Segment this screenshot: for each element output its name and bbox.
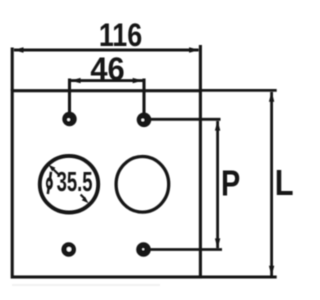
diameter leader upper-left in big circle xyxy=(54,170,59,175)
arrowhead 46 left xyxy=(70,78,80,83)
mounting hole bottom-left xyxy=(61,242,76,257)
plate outline xyxy=(12,91,200,277)
mounting hole top-right xyxy=(137,113,152,128)
wire: left extension line above plate for 116 dim xyxy=(11,48,14,91)
svg-text:35.5: 35.5 xyxy=(57,167,93,198)
wire: top edge extension to L dim line xyxy=(200,89,276,92)
arrowhead L top xyxy=(269,92,274,102)
hole center bottom-right xyxy=(142,248,144,250)
dimension line L xyxy=(270,92,273,276)
hole circle large left xyxy=(40,156,98,213)
arrowhead 116 right xyxy=(189,47,199,53)
arrowhead 46 right xyxy=(133,78,143,83)
wire: stub from dim 46 left end down to top-left hole xyxy=(68,79,71,120)
mounting hole top-left xyxy=(62,112,76,126)
arrowhead P top xyxy=(215,120,220,130)
mounting hole bottom-right xyxy=(136,242,151,257)
arrowhead 116 left xyxy=(13,47,23,53)
wire: extension from top-right hole to P dim line xyxy=(144,118,221,121)
wire: bottom edge extension to L dim line xyxy=(200,276,276,279)
dimension line 116 xyxy=(14,49,199,52)
svg-text:116: 116 xyxy=(99,18,142,54)
phi diameter symbol xyxy=(46,172,53,194)
diameter leader lower-right in big circle xyxy=(81,195,85,199)
svg-text:L: L xyxy=(275,164,294,204)
arrowhead P bottom xyxy=(215,238,220,248)
dimension line P xyxy=(216,121,219,248)
wire: stub from dim 46 right end down to top-right hole xyxy=(142,79,145,120)
wire: right extension line above plate for 116 dim xyxy=(199,45,202,91)
wire: extension from bottom-right hole to P dim line xyxy=(144,248,223,251)
faint scan smudge below plate xyxy=(12,284,160,286)
arrowhead L bottom xyxy=(269,266,274,276)
svg-text:46: 46 xyxy=(90,50,124,87)
hole circle large right xyxy=(116,157,169,213)
dimension line 46 xyxy=(71,79,143,82)
hole center top-left xyxy=(67,118,70,121)
hole center top-right xyxy=(141,119,144,122)
svg-text:P: P xyxy=(221,162,240,203)
hole center bottom-left xyxy=(67,247,72,252)
